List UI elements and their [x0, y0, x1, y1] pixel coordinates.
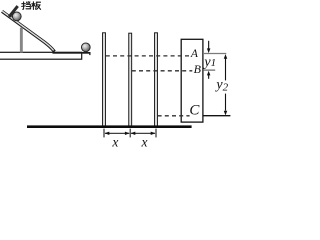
x dimension arrow 1 (pole1-pole2)	[105, 132, 130, 135]
pole 3	[155, 33, 158, 127]
tick at B level	[203, 69, 215, 71]
dashed level line B (pole2 to strip)	[132, 70, 193, 72]
tick below ground at pole1	[103, 129, 104, 138]
dashed level line A (pole1 to strip)	[106, 55, 191, 57]
y2 dimension line with arrows	[224, 54, 228, 115]
table board	[0, 52, 82, 59]
svg-text:C: C	[189, 103, 200, 119]
svg-text:x: x	[111, 135, 118, 149]
x dimension arrow 2 (pole2-pole3)	[131, 132, 156, 135]
recording strip (tall rectangle)	[181, 39, 203, 122]
support post	[20, 28, 23, 53]
pole 2	[129, 33, 132, 127]
tick at C level (strip bottom level extension)	[203, 115, 231, 117]
dashed level line C (pole3 to strip)	[158, 115, 190, 117]
ramp track (incline with curved foot)	[2, 11, 55, 51]
track end cap	[53, 52, 91, 54]
ball on incline	[12, 12, 21, 21]
svg-text:A: A	[190, 48, 199, 60]
pole 1	[103, 33, 106, 127]
label 挡板 (hand-drawn strokes)	[22, 2, 41, 10]
tick below ground at pole3	[155, 129, 156, 138]
svg-text:y1: y1	[202, 55, 216, 70]
ball at table edge	[81, 43, 90, 52]
svg-text:B: B	[194, 62, 202, 76]
ground	[27, 125, 192, 128]
tick below ground at pole2	[130, 129, 131, 138]
svg-text:x: x	[141, 135, 148, 149]
baffle (stop plate) on incline	[9, 6, 18, 17]
y1 dimension lower arrow	[207, 71, 211, 79]
tick at A level	[203, 53, 226, 55]
y1 dimension upper arrow	[207, 41, 211, 53]
